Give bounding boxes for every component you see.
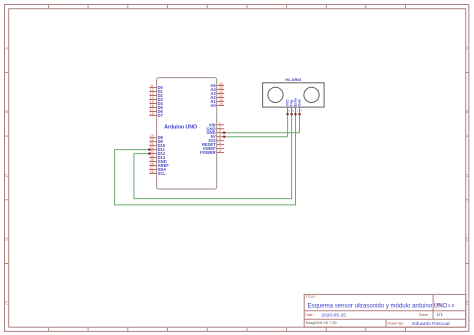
junction at Echo: [294, 113, 296, 115]
arduino pin D11 (pin 22) left: [149, 146, 165, 152]
svg-text:19: 19: [219, 102, 223, 106]
junction at D12: [148, 153, 150, 155]
svg-text:POWER: POWER: [200, 150, 216, 155]
junction at 5V: [223, 136, 225, 138]
svg-text:18: 18: [150, 112, 154, 116]
frame zone letters: [5, 46, 469, 306]
svg-text:Esquema sensor ultrasonido y m: Esquema sensor ultrasonido y módulo ardu…: [308, 303, 448, 309]
svg-text:TITLE:: TITLE:: [306, 295, 316, 299]
arduino UNO body U1: [157, 78, 217, 189]
svg-text:Drawn By:: Drawn By:: [388, 322, 404, 326]
svg-text:REV:: REV:: [436, 303, 444, 307]
wire D11 to Echo: [115, 114, 296, 205]
arduino pin IOREF (pin 7) right: [203, 145, 224, 151]
arduino pin D12 (pin 23) left: [149, 150, 166, 156]
wire D12 to Trig: [134, 114, 292, 198]
arduino pin D3 (pin 14) left: [149, 96, 163, 102]
arduino pin A4 (pin 23) right: [210, 86, 224, 92]
arduino pin 3V3 (pin 5) right: [208, 137, 224, 143]
wire 5V to VCC: [224, 114, 287, 137]
arduino pin D1 (pin 12) left: [149, 88, 163, 94]
svg-text:C: C: [5, 173, 8, 178]
svg-text:D: D: [466, 237, 469, 242]
HC-SR04 pin Echo (pin 3): [294, 98, 299, 114]
svg-text:EasyEDA V5.7.26: EasyEDA V5.7.26: [306, 320, 337, 325]
junction at Trig: [291, 113, 293, 115]
junction at VCC: [287, 113, 289, 115]
junction at Gnd: [298, 113, 300, 115]
arduino pin GND (pin 2) right: [206, 125, 224, 131]
svg-text:A0: A0: [210, 103, 216, 108]
svg-text:E: E: [5, 300, 8, 305]
wire GND to Gnd: [224, 114, 299, 133]
arduino pin A5 (pin 24) right: [210, 82, 224, 88]
svg-text:Date:: Date:: [305, 313, 313, 317]
arduino pin A3 (pin 22) right: [210, 90, 224, 96]
svg-text:SCL: SCL: [158, 171, 167, 176]
arduino pin D2 (pin 13) left: [149, 92, 163, 98]
arduino pin D10 (pin 21) left: [149, 142, 166, 148]
arduino pin D9 (pin 20) left: [149, 138, 163, 144]
arduino pin GND (pin 25) left: [149, 158, 166, 164]
arduino pin A0 (pin 19) right: [210, 102, 224, 108]
svg-text:D7: D7: [158, 113, 164, 118]
svg-text:HC-SR04: HC-SR04: [285, 78, 302, 82]
arduino pin D6 (pin 17) left: [149, 108, 163, 114]
svg-text:28: 28: [150, 170, 154, 174]
svg-text:Eduardo Pascual: Eduardo Pascual: [412, 321, 449, 327]
arduino pin D13 (pin 24) left: [149, 154, 166, 160]
svg-text:A: A: [466, 46, 469, 51]
svg-text:C: C: [466, 173, 469, 178]
arduino pin D8 (pin 19) left: [149, 134, 163, 140]
arduino pin AREF (pin 26) left: [149, 162, 169, 168]
svg-text:1.0: 1.0: [448, 303, 455, 309]
arduino pin RESET (pin 6) right: [202, 141, 224, 147]
HC-SR04 sensor body: [263, 83, 325, 107]
svg-text:D: D: [5, 237, 8, 242]
arduino pin D4 (pin 15) left: [149, 100, 163, 106]
svg-text:8: 8: [219, 149, 221, 153]
arduino pin POWER (pin 8) right: [200, 149, 224, 155]
arduino pin SDA (pin 27) left: [149, 166, 166, 172]
arduino pin A1 (pin 20) right: [210, 98, 224, 104]
arduino pin A2 (pin 21) right: [210, 94, 224, 100]
HC-SR04 pin Gnd (pin 4): [298, 100, 303, 115]
arduino pin 5V (pin 4) right: [211, 133, 225, 139]
HC-SR04 pin Trig (pin 2): [290, 100, 295, 114]
svg-text:2020-05-15: 2020-05-15: [321, 312, 346, 318]
svg-text:Sheet:: Sheet:: [419, 313, 429, 317]
arduino pin D0 (pin 11) left: [149, 84, 163, 90]
svg-text:E: E: [466, 300, 469, 305]
title block outline: [304, 294, 466, 327]
arduino pin D5 (pin 16) left: [149, 104, 163, 110]
HC-SR04 right transducer circle: [304, 87, 319, 102]
arduino pin SCL (pin 28) left: [149, 170, 166, 176]
arduino pin GND (pin 3) right: [206, 129, 224, 135]
junction at D11: [148, 149, 150, 151]
svg-text:B: B: [466, 109, 469, 114]
svg-text:1/1: 1/1: [437, 312, 444, 317]
svg-text:B: B: [5, 109, 8, 114]
svg-text:A: A: [5, 46, 8, 51]
arduino pin D7 (pin 18) left: [149, 112, 163, 118]
svg-text:Arduino UNO: Arduino UNO: [164, 124, 197, 130]
HC-SR04 pin VCC (pin 1): [286, 99, 291, 115]
svg-text:Gnd: Gnd: [298, 100, 302, 107]
junction at GND: [223, 132, 225, 134]
HC-SR04 left transducer circle: [268, 87, 283, 102]
arduino pin VIN (pin 1) right: [209, 121, 224, 127]
